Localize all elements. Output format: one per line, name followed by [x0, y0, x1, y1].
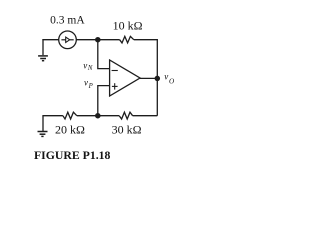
ground (top-left): [38, 56, 48, 61]
bottom node junction: [96, 114, 100, 118]
wire: top-left vertical down to ground: [42, 39, 44, 55]
wire: R3 to bottom-right corner: [133, 115, 158, 117]
op-amp minus sign: [112, 70, 118, 72]
wire: node A down to inverting input: [98, 40, 110, 69]
svg-text:vP: vP: [84, 78, 93, 90]
node vO junction: [155, 76, 159, 80]
resistor R1 10 kOhm: [120, 36, 134, 43]
resistor R2 20 kOhm: [63, 112, 77, 119]
ground (bottom-left): [38, 132, 48, 137]
wire: R1 to top-right corner, right vertical rail: [134, 40, 158, 116]
wire: current source to node A to R1: [76, 39, 119, 41]
node A junction: [96, 38, 100, 42]
op-amp plus sign: [112, 83, 118, 89]
wire: R2 to bottom node to R3: [77, 115, 119, 117]
svg-text:FIGURE P1.18: FIGURE P1.18: [34, 149, 111, 162]
wire: bottom-left corner to R2: [42, 116, 44, 131]
wire: non-inverting input down to bottom node: [98, 86, 110, 116]
svg-text:vN: vN: [83, 60, 93, 72]
current source I1 0.3 mA: [59, 31, 77, 49]
op-amp U1: [110, 60, 140, 96]
svg-text:20 kΩ: 20 kΩ: [55, 122, 85, 136]
svg-text:10 kΩ: 10 kΩ: [113, 19, 143, 33]
svg-text:30 kΩ: 30 kΩ: [112, 122, 142, 136]
resistor R3 30 kOhm: [119, 112, 132, 119]
wire: op-amp output to node vO: [140, 77, 157, 79]
svg-text:vO: vO: [164, 72, 175, 86]
svg-text:0.3 mA: 0.3 mA: [50, 14, 85, 26]
wire: top-left horizontal from ground corner to current source: [42, 39, 58, 41]
